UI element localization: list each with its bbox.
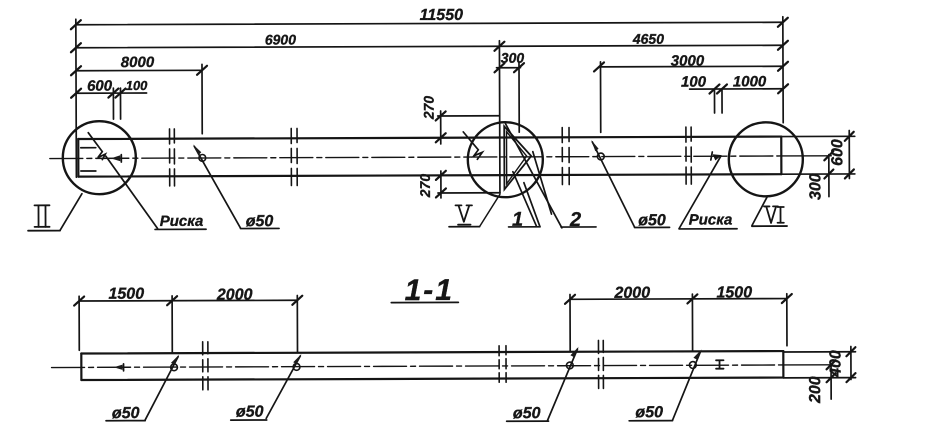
label VI [752, 206, 787, 226]
leader zigzag circle V [463, 132, 482, 160]
label Риска right [679, 211, 737, 229]
beam outline bottom view [81, 351, 783, 380]
svg-text:270: 270 [421, 96, 437, 121]
label II [28, 205, 60, 230]
svg-text:ø50: ø50 [513, 405, 541, 422]
svg-text:6900: 6900 [265, 31, 296, 47]
position mark I bottom [716, 360, 724, 368]
label 1 [508, 209, 540, 231]
hole bottom 2 [231, 354, 302, 421]
leaders VI [752, 196, 768, 225]
detail circle V [468, 122, 543, 197]
leader 2 [505, 124, 561, 228]
svg-text:1500: 1500 [716, 284, 752, 301]
svg-text:ø50: ø50 [635, 404, 663, 421]
extension line x=601 [599, 62, 601, 132]
dim 270 lower [417, 171, 500, 199]
svg-text:4650: 4650 [632, 31, 664, 47]
leader riska left [106, 156, 158, 229]
riska arrow bottom [114, 364, 124, 371]
splice marks pair 3 [562, 128, 569, 185]
svg-text:2000: 2000 [216, 287, 253, 304]
dim line 8000 [71, 54, 207, 75]
beam outline top view [78, 137, 781, 177]
label 2 [561, 209, 596, 231]
dim 600 right top view [782, 131, 855, 179]
extension line left x=76.5 [75, 19, 78, 177]
svg-text:1000: 1000 [733, 73, 767, 90]
svg-text:Риска: Риска [689, 211, 733, 228]
svg-text:2000: 2000 [613, 285, 650, 302]
hole o50 top 1 [193, 144, 279, 230]
circle II interior marks [81, 133, 122, 171]
section marks bottom pair 2 [499, 346, 506, 383]
splice marks pair 1 [170, 129, 175, 186]
svg-text:11550: 11550 [420, 7, 463, 24]
svg-text:3000: 3000 [671, 53, 705, 70]
extension line right x=783.5 [782, 17, 784, 123]
dim line 100 / 1000 right [681, 73, 788, 93]
dim line 6900 / 4650 [71, 30, 788, 53]
svg-text:300: 300 [501, 50, 525, 66]
extension lines 100/1000 [713, 90, 715, 113]
dim 200 bottom right [807, 360, 836, 404]
extension line x=519.5 [518, 63, 520, 132]
centerline top view [50, 156, 781, 159]
svg-text:ø50: ø50 [638, 212, 666, 229]
leaders to label 1 [513, 172, 537, 227]
dim line 11550 [71, 6, 788, 30]
extension line x=202.5 [201, 64, 203, 133]
svg-text:600: 600 [87, 78, 113, 95]
leader II [60, 194, 82, 231]
svg-text:ø50: ø50 [246, 213, 274, 230]
splice marks pair 4 [686, 127, 691, 184]
hole bottom 4 [629, 349, 702, 421]
section title 1-1 [391, 274, 458, 307]
centerline bottom view [52, 365, 783, 368]
dim line bottom right 2000/1500 [565, 284, 792, 304]
bottom extension lines [78, 296, 80, 350]
svg-text:300: 300 [807, 173, 824, 200]
leader from tip apex [533, 152, 552, 215]
svg-text:200: 200 [807, 376, 824, 404]
dim line 300 (near middle) [494, 50, 524, 73]
hole bottom 1 [106, 354, 180, 422]
dim line 3000 [594, 52, 788, 71]
triangle tip detail [504, 126, 531, 189]
svg-text:100: 100 [126, 78, 149, 93]
dim line bottom left 1500/2000 [74, 285, 302, 305]
label Риска left [155, 213, 206, 230]
dim 300 right top view [807, 151, 833, 200]
detail circle II [63, 121, 136, 194]
extension lines 600/100 [112, 88, 114, 119]
detail circle VI [729, 122, 803, 196]
dim line 600 / 100 left [71, 77, 148, 97]
svg-text:ø50: ø50 [112, 405, 140, 422]
section marks bottom pair 3 [598, 340, 603, 389]
splice marks pair 2 [291, 128, 297, 185]
svg-text:Риска: Риска [160, 213, 204, 230]
label V [449, 194, 500, 226]
svg-text:100: 100 [681, 74, 707, 91]
extension line middle x=500 (splice) [498, 41, 501, 193]
hole o50 top 2 [591, 140, 669, 230]
hole bottom 3 [506, 347, 579, 422]
dim 400 bottom right [783, 347, 855, 383]
dim 270 upper [421, 95, 500, 144]
svg-text:8000: 8000 [121, 54, 155, 71]
svg-text:1500: 1500 [108, 286, 144, 303]
riska arrow right [711, 152, 722, 161]
section marks bottom pair 1 [203, 342, 208, 390]
svg-text:ø50: ø50 [236, 404, 264, 421]
leader riska right [679, 156, 721, 228]
svg-text:270: 270 [417, 174, 433, 199]
